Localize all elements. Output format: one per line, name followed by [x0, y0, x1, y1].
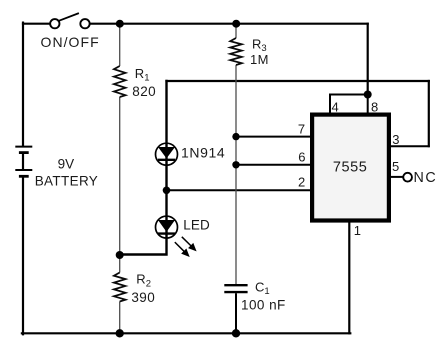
svg-text:9V: 9V	[58, 156, 75, 171]
svg-text:820: 820	[132, 84, 156, 99]
svg-text:1M: 1M	[250, 52, 269, 67]
svg-text:5: 5	[392, 159, 399, 174]
svg-text:4: 4	[332, 100, 339, 115]
svg-text:390: 390	[131, 290, 155, 305]
svg-text:BATTERY: BATTERY	[35, 173, 98, 188]
svg-text:7: 7	[298, 121, 305, 136]
svg-text:1: 1	[354, 223, 361, 238]
svg-text:6: 6	[298, 150, 305, 165]
svg-text:LED: LED	[183, 217, 210, 232]
svg-text:3: 3	[392, 132, 399, 147]
svg-text:100 nF: 100 nF	[241, 297, 286, 312]
svg-text:8: 8	[371, 100, 378, 115]
svg-text:7555: 7555	[333, 160, 367, 176]
svg-text:ON/OFF: ON/OFF	[41, 34, 100, 50]
svg-text:2: 2	[298, 174, 305, 189]
svg-text:1N914: 1N914	[181, 145, 225, 161]
svg-text:NC: NC	[414, 170, 438, 186]
